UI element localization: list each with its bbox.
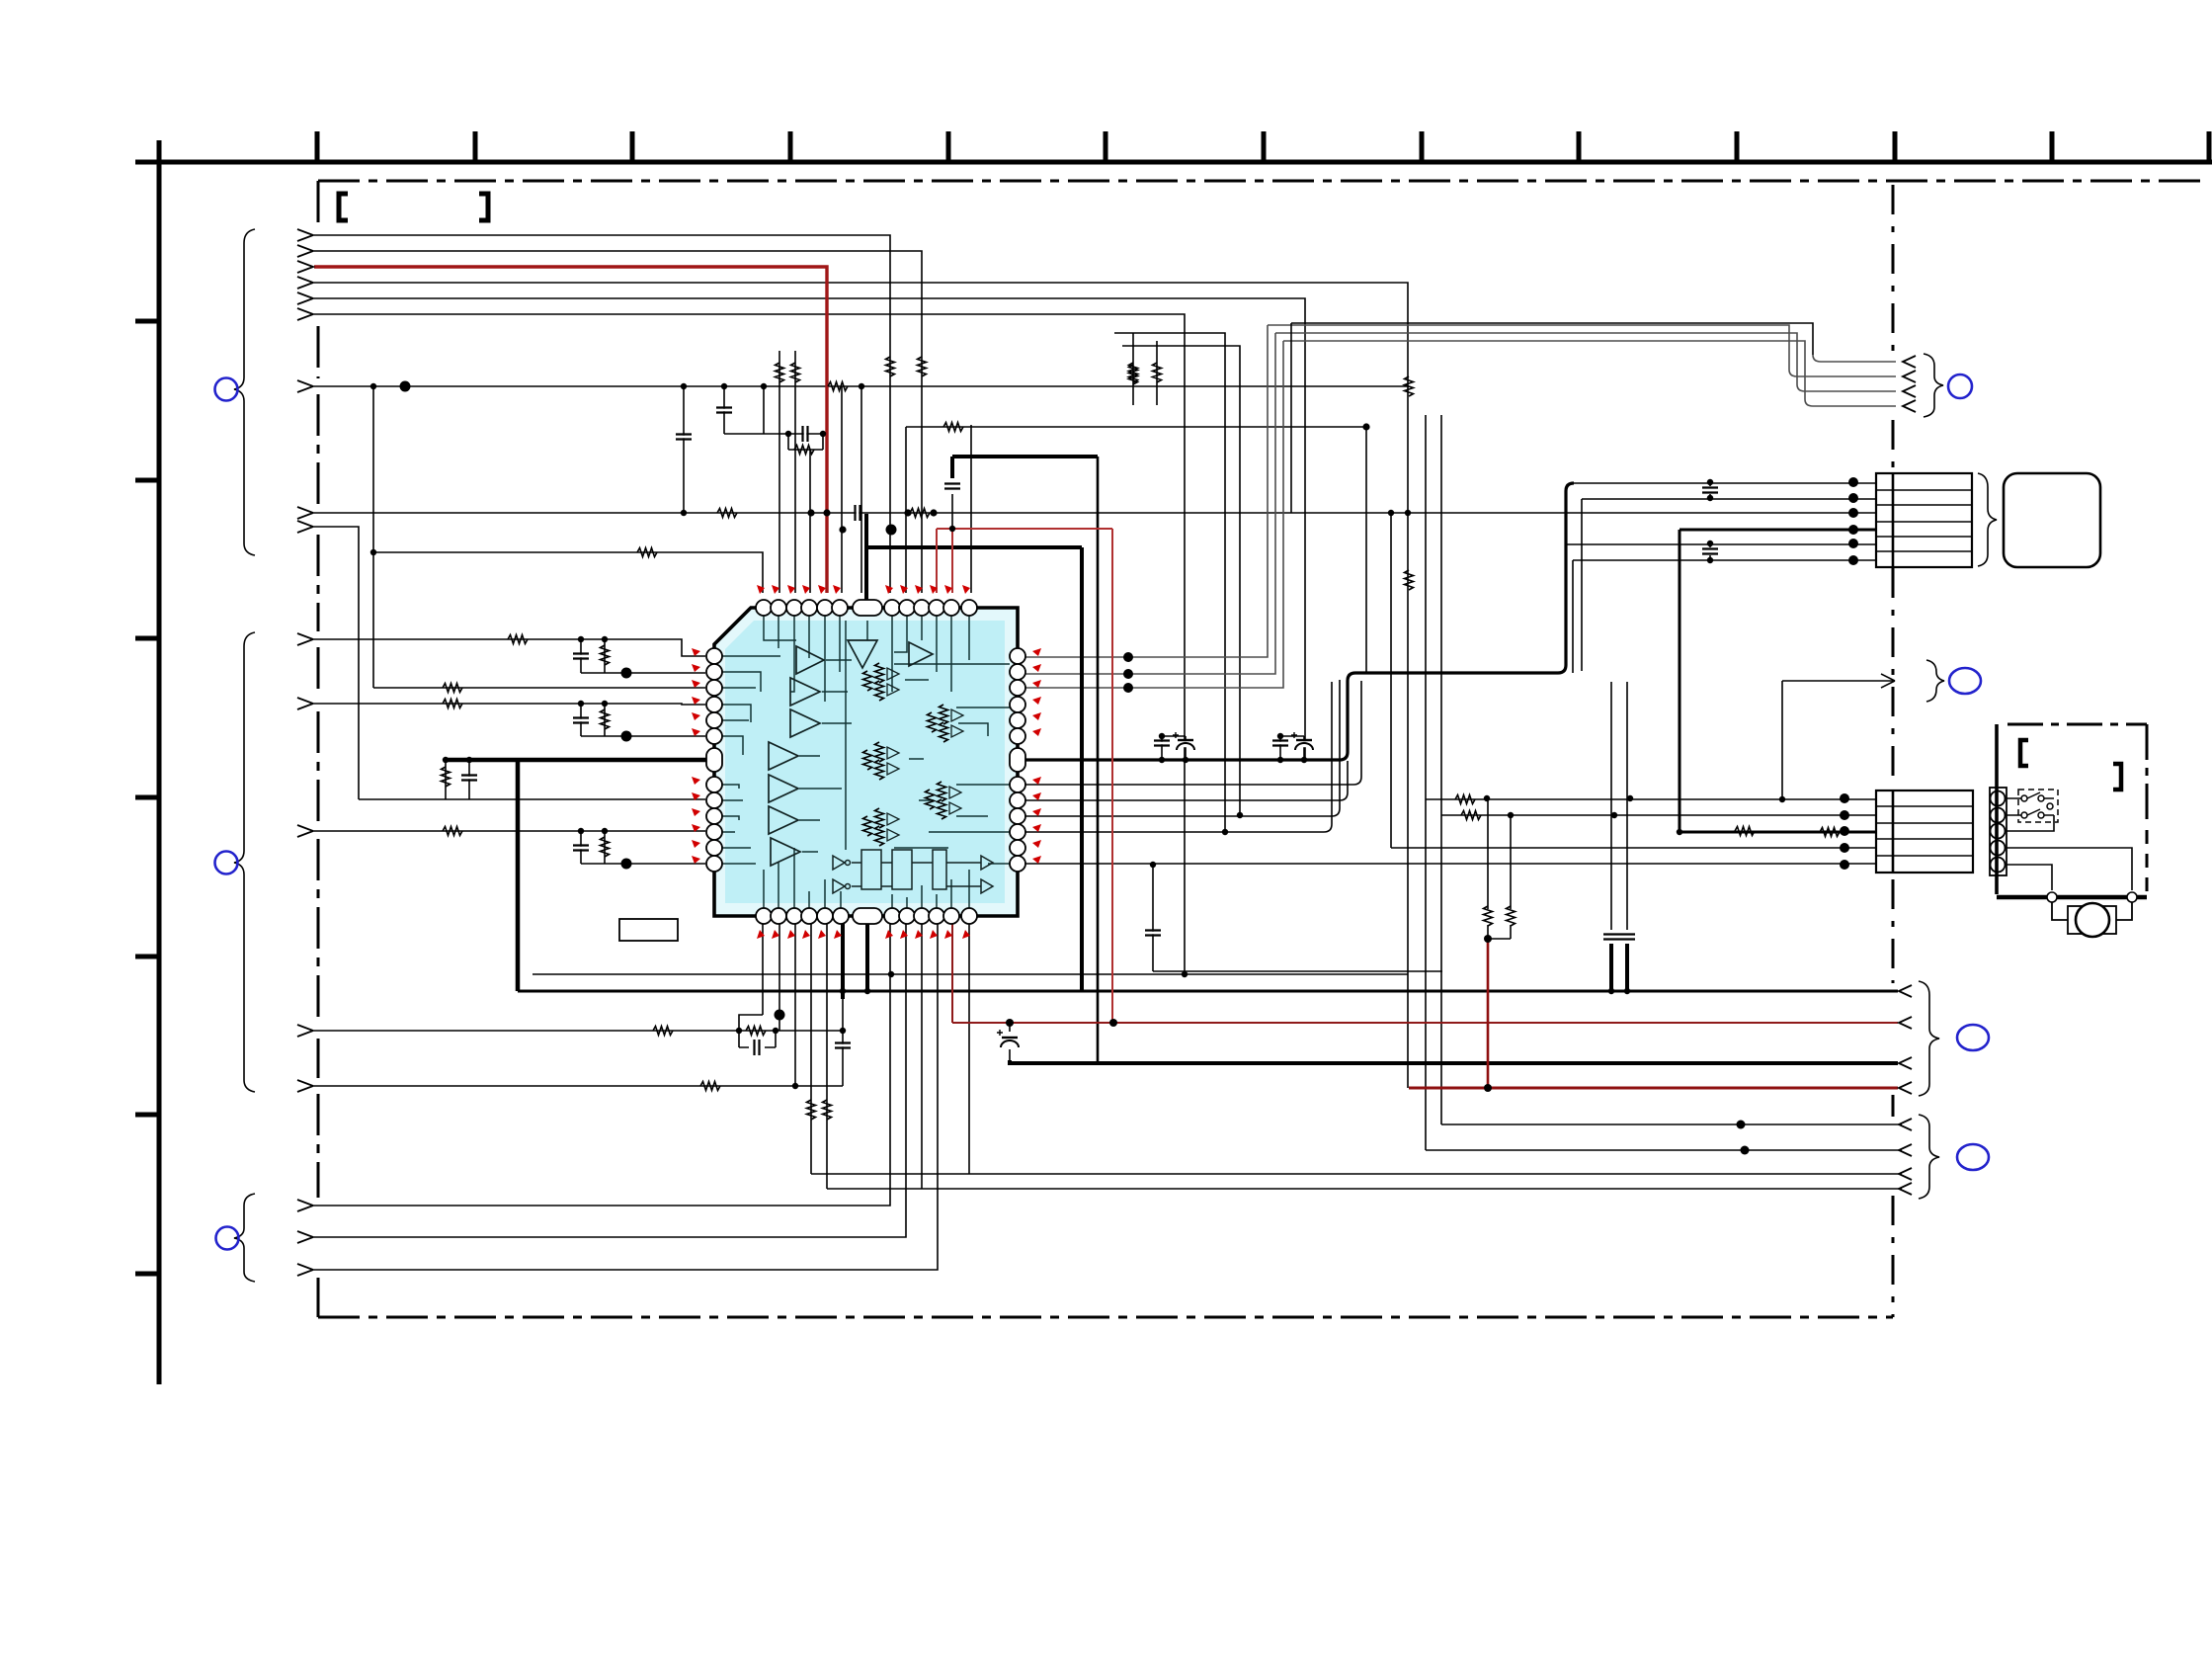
wire red xyxy=(314,267,827,593)
connector pin strip xyxy=(1990,788,2007,875)
wire thick xyxy=(1010,1060,1898,1063)
label circle 1 xyxy=(215,378,238,401)
wire red xyxy=(937,529,1112,1023)
wire xyxy=(739,924,763,1031)
ic attenuator blocks xyxy=(863,663,964,846)
wire xyxy=(970,425,972,593)
capacitor xyxy=(755,1040,760,1055)
capacitor xyxy=(1702,549,1718,554)
resistor xyxy=(823,1100,832,1120)
capacitor xyxy=(856,505,860,521)
wire thick xyxy=(1097,457,1100,1063)
wire xyxy=(314,235,890,593)
wire thick xyxy=(1080,547,1084,991)
wire xyxy=(1441,415,1902,1124)
wire xyxy=(314,527,705,799)
sheet frame xyxy=(135,131,2212,1384)
brace group A xyxy=(1924,354,1943,417)
capacitor xyxy=(803,426,808,442)
wire xyxy=(810,386,842,593)
wire xyxy=(905,427,907,593)
wire xyxy=(314,924,906,1237)
right arrows xyxy=(1881,356,1916,1195)
wire xyxy=(1280,736,1304,760)
crystal box xyxy=(619,919,678,941)
resistor xyxy=(828,382,848,391)
wire xyxy=(1488,798,1511,939)
wire xyxy=(1009,1023,1011,1060)
wire xyxy=(1566,499,1582,673)
label circle C xyxy=(1957,1025,1989,1050)
sub board dash box xyxy=(1997,724,2147,897)
wire xyxy=(446,760,469,799)
resistor xyxy=(886,357,895,376)
wire xyxy=(2007,798,2054,831)
wire xyxy=(1153,865,1442,971)
wire xyxy=(581,639,705,673)
wire red xyxy=(1487,939,1490,1088)
resistor xyxy=(918,357,927,376)
resistor xyxy=(943,423,963,432)
capacitor xyxy=(1154,741,1170,746)
label circle A xyxy=(1948,374,1972,398)
bracket labels bottom box xyxy=(2020,740,2121,790)
wire thick xyxy=(1679,831,1876,834)
wire red xyxy=(952,924,1898,1023)
wire xyxy=(724,386,827,450)
wire xyxy=(314,704,705,705)
capacitor xyxy=(1603,935,1619,940)
wire xyxy=(1018,680,1340,816)
wire xyxy=(1391,513,1876,848)
brace D xyxy=(1919,1115,1939,1199)
resistor xyxy=(910,509,930,518)
resistor xyxy=(776,363,784,382)
resistor xyxy=(1461,811,1481,820)
wire xyxy=(1611,682,1627,930)
wire xyxy=(1162,736,1186,760)
wire xyxy=(1018,333,1797,674)
wire xyxy=(906,427,1366,673)
connector CN-A xyxy=(1876,473,1972,567)
resistor xyxy=(1455,795,1475,804)
brace C xyxy=(1919,981,1939,1096)
wire xyxy=(314,251,922,593)
wire xyxy=(1114,333,1225,832)
wire xyxy=(373,386,705,688)
wire thick xyxy=(841,924,845,999)
resistor xyxy=(794,446,814,455)
wire xyxy=(951,457,953,529)
wire xyxy=(314,298,1305,760)
left arrows xyxy=(297,229,313,1276)
capacitor xyxy=(1619,935,1635,940)
ic internal wiring xyxy=(722,616,1010,908)
wire xyxy=(581,831,705,864)
wire thick bus xyxy=(1025,483,1574,760)
wire xyxy=(1018,761,1348,800)
wire xyxy=(314,385,1409,387)
wire xyxy=(314,512,1876,514)
resistor xyxy=(653,1027,673,1036)
wire thick xyxy=(866,457,1098,600)
wire xyxy=(827,924,1902,1189)
wire xyxy=(739,1031,776,1047)
wire xyxy=(1426,415,1902,1150)
bracket labels top xyxy=(339,194,488,220)
wire thick xyxy=(516,760,521,991)
resistor xyxy=(508,635,528,644)
resistor xyxy=(443,700,462,708)
capacitor xyxy=(573,846,589,851)
resistor xyxy=(601,709,610,729)
wire xyxy=(794,924,796,1086)
resistor xyxy=(1153,363,1162,382)
wire thick xyxy=(1679,530,1681,832)
wire xyxy=(1018,682,1332,832)
label circle 2 xyxy=(215,852,238,874)
resistor xyxy=(637,548,657,557)
wire xyxy=(1426,798,1876,800)
wire thick xyxy=(446,758,706,763)
wire xyxy=(314,283,1408,1088)
resistor xyxy=(1820,828,1840,837)
leaf switch xyxy=(2018,790,2058,822)
wire xyxy=(373,552,763,593)
brace group 2 xyxy=(234,632,255,1092)
capacitor polarized xyxy=(997,1030,1019,1047)
capacitor xyxy=(944,484,960,489)
connector CN-B xyxy=(1876,790,1973,873)
capacitor xyxy=(1272,741,1288,746)
wire xyxy=(968,924,970,1174)
wire xyxy=(314,1085,843,1087)
wire xyxy=(1291,323,1813,513)
wire xyxy=(581,704,705,736)
wire xyxy=(1566,483,1876,560)
wire xyxy=(2007,848,2132,890)
ic buffer amps xyxy=(769,640,933,866)
wire xyxy=(1018,681,1361,785)
resistor xyxy=(1405,376,1414,396)
wire xyxy=(1018,325,1789,657)
wire thick xyxy=(1679,529,1876,532)
capacitor xyxy=(835,1043,851,1048)
red wires xyxy=(314,267,1898,1088)
ic pin arrows xyxy=(692,585,1041,939)
wire xyxy=(1789,355,1896,406)
remote unit box xyxy=(2004,473,2100,567)
resistor xyxy=(791,363,800,382)
label circle 3 xyxy=(216,1227,239,1250)
ic pins xyxy=(706,600,1025,924)
resistor xyxy=(1735,827,1755,836)
right side xyxy=(339,194,2147,1199)
brace group 3 xyxy=(234,1194,255,1282)
wire red xyxy=(1409,1087,1898,1090)
brace group 1 xyxy=(234,229,255,555)
wire xyxy=(314,1030,843,1032)
wire xyxy=(860,386,862,593)
wire thick xyxy=(518,990,1898,993)
resistor xyxy=(601,645,610,665)
wire xyxy=(314,924,938,1270)
wire xyxy=(811,924,1902,1174)
wire xyxy=(842,999,844,1086)
motor M1 xyxy=(2047,892,2137,937)
capacitor xyxy=(676,435,692,440)
resistor xyxy=(1405,570,1414,590)
capacitor xyxy=(1702,488,1718,493)
resistor xyxy=(1129,365,1138,384)
wire xyxy=(533,973,1408,975)
capacitor polarized xyxy=(1173,732,1194,750)
wire xyxy=(1709,482,1711,560)
resistor xyxy=(746,1027,766,1036)
resistor xyxy=(700,1082,720,1091)
capacitor xyxy=(716,408,732,413)
wire xyxy=(1133,333,1157,405)
wire xyxy=(1441,814,1876,816)
resistor xyxy=(442,767,451,787)
wire xyxy=(921,924,923,1189)
capacitor polarized xyxy=(1291,732,1313,750)
wire xyxy=(1122,346,1240,815)
wire xyxy=(1018,863,1876,865)
resistor xyxy=(601,837,610,857)
resistor xyxy=(717,509,737,518)
capacitor xyxy=(573,718,589,723)
capacitor xyxy=(573,654,589,659)
capacitor xyxy=(1145,931,1161,936)
wire xyxy=(314,830,705,832)
wire thick xyxy=(865,924,869,991)
brace xyxy=(1978,473,1997,566)
thick wires xyxy=(446,457,1898,1063)
wire xyxy=(314,639,705,656)
capacitor xyxy=(461,776,477,781)
wire xyxy=(1018,341,1805,688)
label circle B xyxy=(1949,668,1981,694)
wire xyxy=(314,314,1185,974)
ic U1 xyxy=(619,585,1041,941)
resistor xyxy=(807,1100,816,1120)
ic logic chain xyxy=(833,850,993,893)
resistor xyxy=(1507,906,1516,926)
brace B xyxy=(1926,660,1944,702)
resistor xyxy=(1484,906,1493,926)
wire xyxy=(314,924,890,1206)
resistor xyxy=(1129,363,1138,382)
wire xyxy=(778,924,780,1031)
resistor xyxy=(443,827,462,836)
wire thick xyxy=(1611,944,1627,991)
wire xyxy=(779,351,795,593)
wire xyxy=(1782,681,1895,799)
wire xyxy=(683,386,685,513)
left annotation braces xyxy=(215,229,256,1282)
resistor xyxy=(443,684,462,693)
label circle D xyxy=(1957,1144,1989,1170)
